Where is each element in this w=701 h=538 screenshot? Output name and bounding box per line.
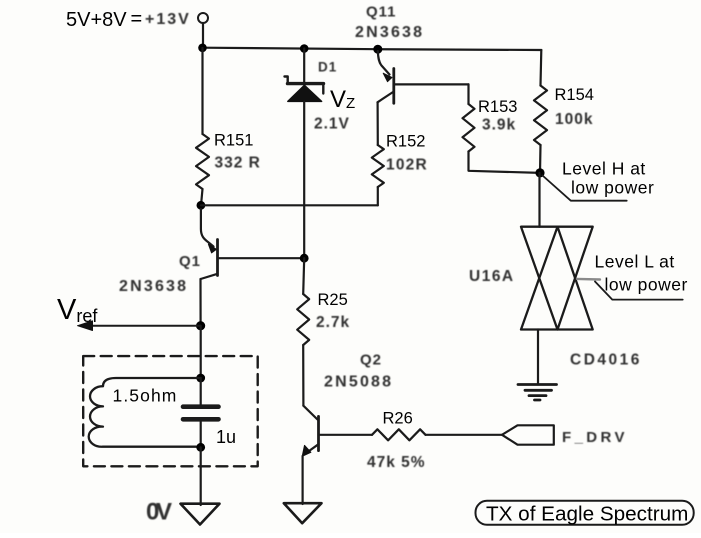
junction (373, 45, 382, 54)
svg-text:2.7k: 2.7k (316, 314, 350, 331)
svg-text:3.9k: 3.9k (482, 117, 516, 134)
svg-text:R152: R152 (386, 133, 425, 151)
wire (426, 434, 503, 436)
svg-text:332 R: 332 R (215, 155, 261, 172)
resistor R151 (196, 134, 209, 189)
junction node Level-H (535, 168, 544, 177)
svg-text:F_DRV: F_DRV (562, 429, 628, 446)
wire (467, 84, 469, 104)
svg-text:1u: 1u (216, 427, 236, 447)
wire (200, 447, 202, 505)
zener diode D1 (285, 49, 324, 259)
junction (300, 44, 309, 53)
svg-text:1.5ohm: 1.5ohm (113, 386, 178, 406)
junction (196, 374, 205, 383)
resistor R152 (372, 145, 384, 187)
svg-text:D1: D1 (318, 60, 337, 75)
wire (539, 50, 542, 86)
wire (469, 152, 541, 173)
svg-text:R151: R151 (214, 132, 253, 150)
wire (537, 330, 539, 384)
svg-text:Q11: Q11 (366, 4, 397, 21)
svg-text:R154: R154 (555, 86, 594, 104)
node +13V supply terminal (198, 13, 208, 23)
wire (200, 326, 202, 378)
resistor R154 (534, 86, 547, 146)
ground 0V (181, 504, 220, 525)
svg-text:2N3638: 2N3638 (119, 278, 188, 295)
net flag F_DRV (502, 425, 554, 444)
callout leader Level L (595, 282, 683, 300)
svg-text:=: = (131, 8, 143, 30)
junction node Vref (300, 254, 309, 263)
wire (539, 145, 542, 173)
svg-text:2N3638: 2N3638 (355, 24, 424, 41)
svg-text:0V: 0V (146, 499, 172, 526)
inductor 1.5ohm (89, 378, 201, 447)
wire (201, 204, 378, 206)
svg-text:R26: R26 (383, 410, 413, 428)
svg-text:R25: R25 (318, 291, 348, 309)
wire (538, 173, 540, 227)
svg-text:Level L at: Level L at (595, 252, 675, 272)
svg-text:Level H at: Level H at (562, 159, 646, 179)
junction (198, 44, 207, 53)
resistor R25 (297, 294, 309, 345)
junction (196, 321, 205, 330)
svg-text:5V+8V: 5V+8V (66, 9, 127, 31)
svg-text:U16A: U16A (469, 268, 515, 285)
callout leader Level H (543, 176, 627, 201)
wire top rail (203, 48, 542, 50)
svg-text:Q1: Q1 (179, 253, 201, 270)
svg-text:2N5088: 2N5088 (324, 374, 393, 391)
svg-text:100k: 100k (555, 111, 593, 128)
wire (302, 345, 304, 406)
transistor Q2 (302, 406, 372, 504)
resistor R153 (463, 104, 475, 152)
svg-text:Q2: Q2 (360, 352, 382, 369)
annotation box TX of Eagle Spectrum (476, 501, 694, 525)
svg-text:low power: low power (605, 275, 688, 295)
svg-text:CD4016: CD4016 (570, 352, 642, 369)
transistor Q1 (201, 209, 305, 324)
earth ground CD4016 (518, 385, 557, 401)
svg-text:2.1V: 2.1V (314, 116, 350, 133)
control pin stub U16A (577, 278, 600, 281)
wire (303, 258, 304, 294)
svg-text:+13V: +13V (145, 11, 191, 28)
net Vref arrow (78, 321, 201, 331)
transistor Q11 (378, 51, 469, 145)
svg-text:R153: R153 (478, 98, 517, 116)
svg-text:47k 5%: 47k 5% (367, 454, 426, 471)
wire (377, 187, 379, 205)
wire (202, 23, 204, 48)
svg-text:TX of Eagle Spectrum: TX of Eagle Spectrum (486, 503, 688, 526)
junction (196, 443, 205, 452)
junction (197, 201, 206, 210)
dashed tank box (83, 356, 258, 466)
analog switch U16A (521, 227, 593, 330)
svg-text:102R: 102R (386, 157, 428, 174)
svg-text:low power: low power (571, 178, 654, 198)
ground Q2 emitter (284, 503, 322, 523)
wire (201, 189, 203, 205)
resistor R26 (372, 429, 426, 440)
wire (201, 48, 203, 134)
capacitor 1u (183, 378, 219, 447)
